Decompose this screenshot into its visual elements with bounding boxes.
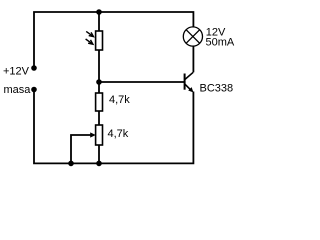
- potentiometer R2 wiper arrowhead: [90, 132, 96, 137]
- svg-text:BC338: BC338: [200, 82, 234, 94]
- junction node top rail: [96, 9, 102, 15]
- wire between R1 and R2: [98, 111, 100, 125]
- svg-text:masa: masa: [4, 84, 32, 96]
- transistor Q1 collector: [185, 72, 194, 79]
- terminal +12V dot: [31, 65, 37, 71]
- resistor R1 body: [96, 93, 103, 111]
- transistor Q1 base bar: [184, 74, 186, 90]
- wire lamp bottom to collector: [192, 46, 194, 73]
- photoresistor LDR body: [96, 31, 103, 50]
- wire LDR top lead: [98, 12, 100, 31]
- junction node A (base/divider): [96, 79, 102, 85]
- photoresistor light arrow 1: [86, 31, 93, 36]
- wire LDR bottom lead to node A: [98, 50, 100, 93]
- svg-text:4,7k: 4,7k: [108, 128, 129, 140]
- svg-text:50mA: 50mA: [206, 36, 235, 48]
- junction node bottom divider: [96, 161, 102, 167]
- potentiometer R2 body: [96, 125, 103, 145]
- svg-text:+12V: +12V: [3, 65, 30, 77]
- terminal masa dot: [31, 87, 37, 93]
- junction node bottom wiper: [68, 161, 74, 167]
- wire masa rail: terminal down, along bottom, up to emitter: [34, 90, 193, 164]
- lamp bulb symbol: [183, 27, 202, 46]
- wire +12V rail: terminal up and across top to lamp: [34, 12, 193, 68]
- transistor Q1 emitter: [185, 84, 191, 90]
- wire wiper of R2 to bottom rail: [71, 135, 91, 163]
- transistor Q1 emitter arrowhead: [188, 87, 193, 92]
- svg-text:4,7k: 4,7k: [109, 94, 130, 106]
- photoresistor light arrow 2: [86, 39, 93, 44]
- wire base: node A to transistor base: [99, 81, 184, 83]
- wire R2 bottom lead: [98, 145, 100, 163]
